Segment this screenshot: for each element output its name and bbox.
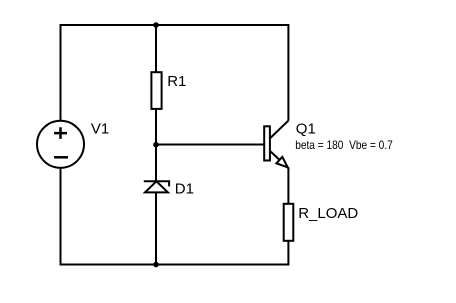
wire: middle rail top junction to R1 top	[155, 25, 157, 72]
svg-text:R1: R1	[167, 73, 186, 90]
voltage source V1	[37, 121, 84, 168]
svg-text:beta = 180 Vbe = 0.7: beta = 180 Vbe = 0.7	[295, 138, 393, 152]
wire: left rail below V1, bottom rail, up to R_LOAD bottom	[61, 168, 289, 265]
node: base junction	[153, 142, 159, 148]
resistor R_LOAD	[284, 204, 294, 241]
resistor R1	[151, 72, 161, 109]
node: top junction	[153, 22, 159, 28]
transistor Q1	[264, 121, 288, 204]
wire: middle rail R1 bottom to zener bar	[155, 109, 157, 181]
wire: top rail from left corner to collector corner	[61, 25, 289, 121]
wire: base wire from middle rail to Q1 bar	[156, 144, 265, 146]
wire: middle rail zener bottom to bottom junction	[155, 192, 157, 264]
svg-text:V1: V1	[91, 121, 109, 138]
svg-text:D1: D1	[175, 180, 194, 197]
zener diode D1	[144, 181, 169, 192]
svg-text:R_LOAD: R_LOAD	[298, 205, 358, 222]
svg-text:Q1: Q1	[296, 121, 316, 138]
node: bottom junction	[153, 262, 159, 268]
